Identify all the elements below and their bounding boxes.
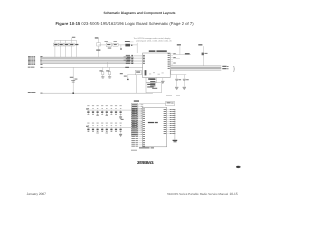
- diode D26: [110, 104, 112, 107]
- connector P101 block: [146, 83, 161, 93]
- wire: [136, 75, 138, 93]
- ground: [175, 86, 178, 89]
- pins U103 bottom labels: [139, 146, 150, 149]
- label C114: [124, 76, 127, 77]
- pins U103 left group 1: [131, 108, 135, 111]
- op-amp U102 body: [135, 70, 141, 74]
- diode D37: [115, 122, 117, 125]
- wire bus band (LCD bus): [171, 66, 221, 70]
- wire bus band (left data bus): [42, 57, 135, 64]
- diode D22: [92, 104, 94, 107]
- op-amp U101 label: [149, 50, 156, 52]
- node +5V: [177, 44, 181, 45]
- label C121: [96, 50, 100, 51]
- wire: [173, 57, 180, 59]
- label faint: [176, 94, 180, 97]
- ground: [173, 140, 178, 141]
- diode D32: [92, 122, 94, 125]
- connector J101: [131, 104, 138, 120]
- U103 label: [148, 122, 154, 123]
- node arrow 1.8V: [125, 67, 129, 68]
- resistor R104: [69, 43, 74, 46]
- diode D36: [110, 122, 112, 125]
- label: [121, 118, 124, 121]
- node KP row label: [86, 125, 89, 128]
- node LCD-2: [222, 68, 226, 69]
- diode D25: [106, 104, 108, 107]
- transistor Q101 block: [146, 78, 156, 83]
- wire pull-up rail: [54, 39, 76, 41]
- svg-text:Schematic Diagrams and Compone: Schematic Diagrams and Component Layouts: [104, 11, 176, 15]
- resistor R123: [113, 43, 118, 46]
- wire: [179, 46, 181, 54]
- diode D31: [87, 122, 89, 125]
- label faint: [166, 94, 172, 97]
- svg-text:Figure 10-15 023-5005-195/162/: Figure 10-15 023-5005-195/162/196 Logic …: [56, 21, 195, 26]
- pins U103 left group 2: [131, 127, 135, 130]
- wire: [203, 46, 205, 66]
- wire: [128, 73, 136, 75]
- wire: [106, 62, 108, 67]
- wire: [70, 38, 72, 57]
- wire clock chain: [98, 44, 137, 46]
- resistor R122: [106, 43, 111, 47]
- label C113: [120, 73, 123, 74]
- wire: [76, 40, 78, 57]
- ferrite bead E102: [124, 59, 127, 62]
- svg-text:5100 ES Series Portable Radio: 5100 ES Series Portable Radio Service Ma…: [167, 192, 228, 196]
- ground: [120, 115, 122, 117]
- wire: [129, 41, 134, 43]
- crystal Y101: [125, 44, 130, 47]
- wire: [170, 70, 172, 75]
- resistor R144 label: [185, 53, 190, 54]
- diode D33: [97, 122, 99, 125]
- svg-text:2B79838W01: 2B79838W01: [137, 160, 155, 165]
- capacitor C112: [109, 67, 111, 71]
- node KP-ROW label: [147, 121, 151, 122]
- ground: [161, 80, 164, 83]
- wire: [65, 40, 67, 43]
- resistor network RN101: [166, 101, 175, 105]
- net labels into U101 left: [126, 54, 130, 57]
- wire 1.8V rail: [42, 66, 143, 68]
- revision mark: [236, 166, 241, 168]
- diode D28: [120, 104, 122, 107]
- svg-text:and keypad: U101, U102, U103,: and keypad: U101, U102, U103, U104, U5: [136, 40, 172, 43]
- label: [108, 47, 111, 50]
- ferrite bead E103: [202, 53, 204, 56]
- diode D24: [101, 104, 103, 107]
- label R120: [95, 37, 99, 38]
- wire: [139, 102, 165, 104]
- wire: [72, 67, 74, 93]
- wire +8V rail: [42, 92, 153, 94]
- ground: [183, 86, 186, 89]
- diode D34: [101, 122, 103, 125]
- ground: [120, 132, 122, 134]
- ground: [108, 76, 111, 79]
- wire: [152, 92, 154, 94]
- pins P101: [150, 78, 155, 81]
- diode D27: [115, 104, 117, 107]
- pin names inside U101 bottom: [149, 73, 151, 76]
- svg-text:10-15: 10-15: [229, 192, 237, 196]
- wire: [173, 54, 191, 56]
- capacitor C111: [102, 67, 104, 71]
- diode D21: [87, 104, 89, 107]
- resistor R105 label: [75, 44, 78, 45]
- resistor R102: [59, 43, 64, 46]
- node 1.8V label: [28, 66, 31, 69]
- capacitor C131: [176, 75, 178, 79]
- wire: [59, 40, 61, 43]
- diode D35: [106, 122, 108, 125]
- label: [105, 40, 108, 43]
- wire: [120, 45, 122, 48]
- node label: [134, 100, 139, 101]
- node LCD-1: [222, 66, 226, 67]
- pins U103 right: [164, 108, 167, 111]
- wire: [65, 46, 67, 57]
- node label: [72, 36, 75, 39]
- wire keypad row: [87, 126, 131, 128]
- wire: [54, 40, 56, 43]
- connector J102: [131, 120, 138, 135]
- capacitor C120: [70, 76, 74, 79]
- resistor R103: [64, 43, 69, 46]
- node dot: [131, 45, 132, 46]
- wire keypad row: [87, 109, 131, 111]
- net labels: left data bus names: [28, 55, 31, 58]
- wire: [174, 110, 176, 140]
- ground: [101, 76, 104, 79]
- wire: [54, 46, 56, 57]
- op-amp U101 body: [143, 53, 171, 78]
- ferrite bead E101: [124, 56, 127, 59]
- resistor R121: [97, 43, 101, 46]
- node KP row label: [86, 108, 89, 111]
- resistor R101: [53, 43, 58, 46]
- node +5V LCD: [198, 44, 202, 45]
- crystal label inside U101: [145, 70, 147, 75]
- capacitor C132: [183, 75, 185, 79]
- wire: [162, 78, 164, 81]
- svg-text:January 2007: January 2007: [27, 192, 47, 196]
- node junction dot: [72, 92, 74, 94]
- svg-text:}: }: [233, 65, 235, 72]
- node dot: [127, 79, 129, 80]
- wire: [97, 38, 99, 57]
- pins U101 right: [170, 53, 173, 55]
- crystal Y101 label: [125, 40, 130, 43]
- node dot: [120, 48, 122, 49]
- node +8V label: [28, 91, 31, 94]
- wire: [136, 43, 138, 53]
- wire: [127, 74, 129, 78]
- diode D23: [97, 104, 99, 107]
- node arrows into bus: [40, 55, 42, 58]
- diode D38: [120, 122, 122, 125]
- label: [114, 40, 117, 43]
- op-amp U103 body: [142, 107, 166, 146]
- wire: [171, 74, 186, 76]
- wire: [59, 46, 61, 57]
